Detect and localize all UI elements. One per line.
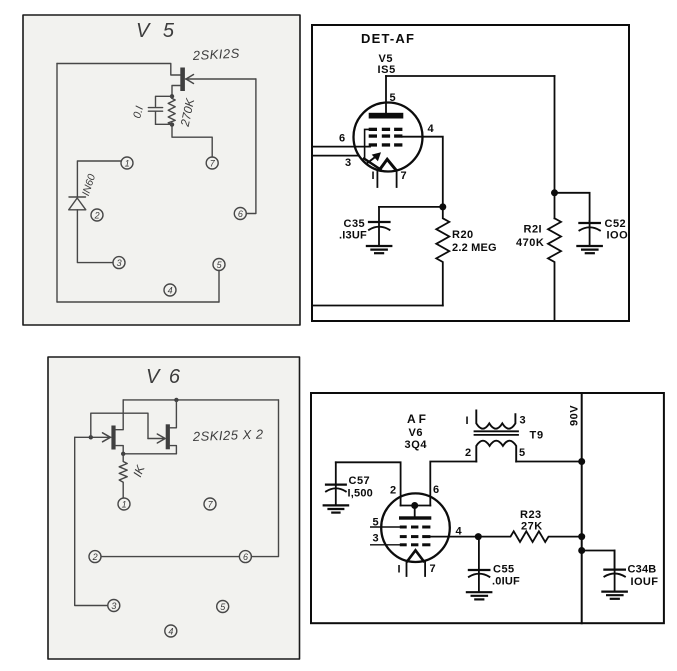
grid dashes row 3 — [369, 143, 403, 146]
svg-text:IOUF: IOUF — [631, 576, 659, 588]
svg-text:C52: C52 — [605, 218, 627, 230]
node 3 circle — [113, 257, 125, 269]
wire plate to B+ rail top — [386, 75, 555, 77]
node: plate tie dot — [411, 502, 418, 509]
node 2 circle — [91, 209, 103, 221]
wire left rail gate to node 3 — [75, 437, 108, 605]
Q1 drain lead — [116, 400, 124, 430]
svg-text:470K: 470K — [516, 237, 544, 249]
node: junction dot rail/T9 — [578, 458, 585, 465]
wire node to C52 — [555, 193, 590, 221]
resistor R23 — [478, 531, 581, 542]
svg-text:6: 6 — [339, 133, 345, 145]
node 3 circle — [108, 600, 120, 612]
svg-text:5: 5 — [390, 92, 396, 104]
svg-text:1: 1 — [125, 159, 130, 169]
ground below C52 — [577, 246, 601, 253]
pin 4 wire to grid-leak node — [402, 137, 442, 207]
filament of V6 — [407, 550, 423, 561]
svg-text:90V: 90V — [569, 405, 581, 426]
wire left rail — [56, 64, 58, 303]
plate stub — [414, 506, 416, 517]
grid internal connector — [365, 129, 369, 157]
node 2 circle — [89, 551, 101, 563]
node 4 circle — [165, 625, 177, 637]
panel frame (decorative) — [311, 393, 664, 623]
svg-text:2SKI25 X 2: 2SKI25 X 2 — [192, 427, 265, 445]
wire gate link to Q2 — [91, 413, 148, 438]
svg-text:R20: R20 — [452, 229, 474, 241]
svg-text:.I3UF: .I3UF — [339, 230, 367, 242]
tube V6 envelope — [381, 493, 450, 562]
svg-text:2.2 MEG: 2.2 MEG — [452, 242, 497, 254]
wire source link — [123, 453, 176, 455]
svg-text:7: 7 — [430, 563, 436, 575]
capacitor C52 — [579, 221, 600, 246]
svg-text:C57: C57 — [349, 475, 371, 487]
node: gate junction dot — [89, 435, 93, 439]
transistor Q1 2SK125 channel bar — [180, 68, 185, 92]
Q2 drain lead — [170, 400, 177, 428]
node: junction dot B+ rail — [551, 189, 558, 196]
Q2 gate arrow — [148, 434, 165, 443]
pin 1 wire — [376, 171, 378, 187]
wire RC top link — [156, 96, 173, 106]
svg-text:IOO: IOO — [607, 230, 629, 242]
svg-text:3: 3 — [520, 415, 526, 427]
node: junction dot grid leak — [439, 203, 446, 210]
svg-text:1: 1 — [122, 500, 127, 510]
wire T9 sec pin5 to 90V rail — [516, 461, 582, 463]
node: source junction dot — [121, 452, 125, 456]
svg-text:AF: AF — [407, 412, 429, 426]
svg-text:2: 2 — [94, 211, 100, 221]
node: junction dot pin4/C55/R23 — [475, 533, 482, 540]
node: junction dot R23/rail — [578, 533, 585, 540]
node: RC top junction dot — [170, 94, 174, 98]
svg-text:4: 4 — [168, 286, 173, 296]
node: junction dot C34B/rail — [578, 547, 585, 554]
ground below C35 — [367, 246, 391, 253]
svg-text:3: 3 — [111, 601, 116, 611]
svg-text:5: 5 — [373, 517, 379, 529]
svg-text:C34B: C34B — [628, 564, 657, 576]
node 1 circle — [121, 157, 133, 169]
svg-text:C55: C55 — [493, 564, 515, 576]
plate (anode) bar of V5 — [369, 113, 404, 119]
resistor 270K — [168, 96, 175, 124]
svg-text:2SKI2S: 2SKI2S — [191, 46, 240, 63]
pin 4 wire — [430, 536, 478, 538]
svg-text:DET-AF: DET-AF — [361, 31, 415, 46]
node 7 circle — [204, 498, 216, 510]
wire C57 to tube pin 2 — [336, 462, 401, 505]
svg-text:I: I — [372, 170, 375, 182]
wire top from left rail to FET drain — [57, 64, 180, 76]
node 7 circle — [206, 157, 218, 169]
svg-text:3Q4: 3Q4 — [405, 439, 428, 451]
wire B+ rail down — [554, 76, 556, 218]
wire T9 sec pin2 to tube pin6 — [430, 462, 476, 506]
capacitor C35 — [369, 207, 390, 246]
ground below C34B — [602, 592, 626, 599]
svg-text:3: 3 — [373, 533, 379, 545]
grid dashes row 1 — [400, 526, 431, 529]
svg-text:3: 3 — [345, 157, 351, 169]
svg-text:4: 4 — [456, 526, 463, 538]
wire node to C35 — [379, 206, 443, 208]
svg-text:V 5: V 5 — [136, 20, 178, 42]
svg-text:R2I: R2I — [524, 224, 543, 236]
node 4 circle — [164, 284, 176, 296]
panel frame (decorative) — [48, 357, 300, 659]
filament of V5 — [364, 159, 396, 170]
pin 7 wire — [396, 171, 398, 187]
pin 3 wire — [371, 544, 400, 546]
wire right rail down to node 6 — [246, 79, 256, 214]
node: top rail dot — [174, 398, 178, 402]
Q2 source lead — [170, 446, 177, 454]
svg-text:V6: V6 — [409, 427, 424, 439]
svg-text:IS5: IS5 — [378, 64, 396, 76]
svg-text:6: 6 — [238, 209, 243, 219]
node 1 circle — [118, 498, 130, 510]
capacitor C57 — [326, 462, 346, 505]
wire top rail — [123, 399, 278, 401]
pin 7 wire — [424, 562, 426, 577]
node: RC bottom junction dot — [170, 122, 174, 126]
svg-text:3: 3 — [117, 258, 122, 268]
capacitor C34B — [604, 551, 625, 592]
wire node 2 to node 6 — [101, 556, 239, 558]
svg-text:2: 2 — [465, 447, 471, 459]
node 6 circle — [239, 551, 251, 563]
svg-text:2: 2 — [390, 485, 396, 497]
resistor 1K — [119, 454, 127, 498]
svg-text:4: 4 — [428, 123, 435, 135]
wire bottom rail to node 5 — [218, 271, 220, 303]
Q1 gate wire with arrow — [75, 433, 111, 442]
grid dashes row 1 — [369, 128, 403, 131]
resistor R21 — [548, 218, 561, 321]
ground below C57 — [324, 505, 348, 512]
diode 1N60 — [69, 197, 86, 210]
svg-text:I: I — [466, 415, 469, 427]
wire diode to node 3 — [77, 210, 113, 263]
svg-text:6: 6 — [433, 484, 439, 496]
cathode arrow inside V5 — [368, 152, 381, 162]
wire source down to node 7 — [172, 125, 212, 157]
wire RC bottom link — [156, 123, 173, 125]
grid dashes row 3 — [400, 543, 431, 546]
pin 5 wire — [371, 526, 400, 528]
transformer T9 core — [475, 431, 519, 435]
panel frame (decorative) — [23, 15, 300, 325]
transformer T9 secondary winding — [476, 441, 516, 462]
wire bottom return — [313, 305, 443, 307]
panel frame (decorative) — [312, 25, 629, 321]
svg-text:6: 6 — [243, 552, 248, 562]
transistor Q2 channel bar — [166, 424, 170, 449]
svg-text:R23: R23 — [520, 509, 542, 521]
tube V5 envelope — [354, 103, 423, 172]
wire rail to C34B — [582, 551, 615, 569]
wire right rail down to node 6 — [251, 400, 278, 557]
node 5 circle — [213, 259, 225, 271]
svg-text:I,500: I,500 — [348, 488, 373, 500]
svg-text:2: 2 — [92, 552, 98, 562]
wire node 1 to diode — [77, 161, 121, 197]
pin 1 wire — [406, 562, 408, 577]
svg-text:T9: T9 — [530, 430, 544, 442]
grid dashes row 2 — [369, 134, 403, 137]
svg-text:C35: C35 — [344, 218, 366, 230]
wire pins 2-6 tie bar — [401, 505, 431, 507]
transformer T9 primary winding — [476, 411, 515, 429]
pin 6 wire — [313, 146, 370, 148]
svg-text:I: I — [398, 564, 401, 576]
ground below C55 — [467, 592, 491, 599]
Q1 source lead — [172, 86, 180, 97]
node 6 circle — [234, 208, 246, 220]
svg-text:4: 4 — [168, 627, 173, 637]
svg-text:27K: 27K — [521, 521, 543, 533]
Q1 gate wire with arrow — [186, 75, 256, 84]
svg-text:5: 5 — [519, 447, 525, 459]
resistor R20 — [436, 207, 449, 306]
Q1 source lead — [116, 446, 124, 454]
grid dashes row 2 — [400, 535, 431, 538]
transistor Q1 channel bar — [111, 426, 115, 450]
pin 3 wire — [313, 155, 358, 157]
node 5 circle — [217, 601, 229, 613]
svg-text:7: 7 — [401, 170, 407, 182]
svg-text:V 6: V 6 — [146, 366, 182, 388]
capacitor C55 — [469, 537, 490, 592]
wire bottom rail — [57, 301, 219, 303]
capacitor 0.1 — [148, 108, 162, 125]
90V supply rail — [581, 393, 583, 623]
plate (anode) bar of V6 — [399, 516, 431, 519]
pin 5 wire (plate lead up) — [385, 76, 387, 113]
svg-text:.0IUF: .0IUF — [492, 576, 520, 588]
